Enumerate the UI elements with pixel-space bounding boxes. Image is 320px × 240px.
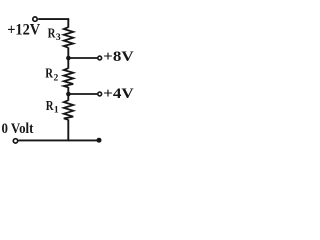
svg-text:+4V: +4V [103, 86, 134, 102]
svg-text:1: 1 [54, 104, 59, 115]
terminal +8V (open circle) [98, 56, 102, 60]
terminal 0 Volt (open circle) [13, 139, 17, 143]
wire top vertical lead into R3 [67, 19, 69, 28]
wire top horizontal from +12V terminal to column [38, 18, 69, 20]
resistor R2 (zigzag) [64, 68, 73, 87]
resistor R1 (zigzag) [64, 100, 73, 120]
svg-text:R: R [48, 25, 56, 40]
wire lead R3 bottom to +8V node [67, 47, 69, 59]
wire +4V tap [68, 93, 97, 95]
node +4V junction (filled dot) [66, 92, 71, 97]
wire +8V tap [68, 57, 97, 59]
svg-text:+12V: +12V [7, 21, 41, 38]
resistor R3 (zigzag) [64, 27, 73, 48]
svg-text:2: 2 [54, 72, 59, 83]
svg-text:R: R [45, 66, 53, 81]
wire lead +8V node into R2 [67, 58, 69, 69]
svg-text:+8V: +8V [103, 49, 134, 65]
node end of rail (small circle) [97, 138, 101, 142]
terminal +12V (open circle) [33, 17, 37, 21]
wire lead R2 bottom to +4V node [67, 87, 69, 95]
node +8V junction (filled dot) [66, 56, 71, 61]
wire bottom rail [18, 139, 97, 141]
terminal +4V (open circle) [98, 92, 102, 96]
svg-text:R: R [46, 98, 54, 113]
svg-text:0 Volt: 0 Volt [2, 121, 34, 137]
wire lead +4V node into R1 [67, 94, 69, 101]
wire lead R1 bottom to ground rail [67, 120, 69, 142]
svg-text:3: 3 [56, 32, 61, 43]
